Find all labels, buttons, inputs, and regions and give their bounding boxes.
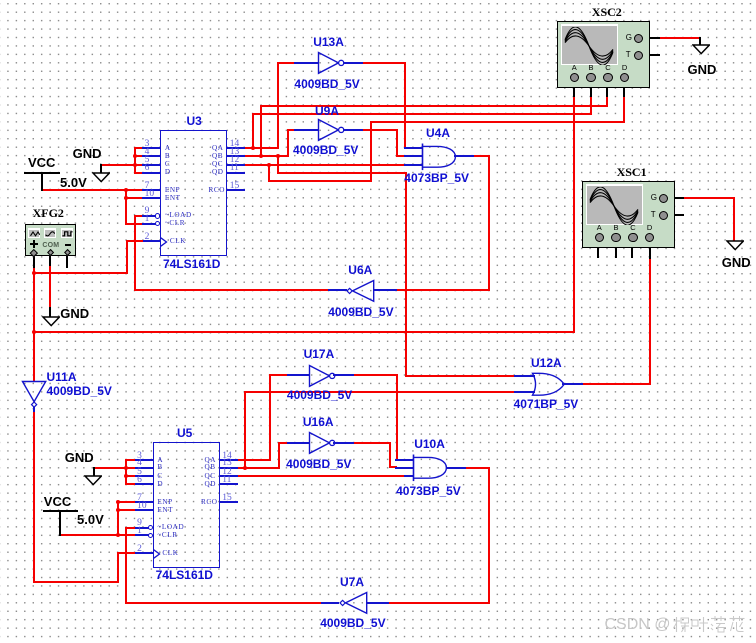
wire U5 QC row to U10A input 3 xyxy=(235,475,406,477)
oscilloscope XSC2 G T terminals xyxy=(634,34,643,43)
or gate U12A xyxy=(514,375,535,377)
wire QA to XSC2 B xyxy=(252,113,254,149)
wire VCC to U5 ENP ENT ~CLR xyxy=(59,534,137,536)
function generator XFG2 body xyxy=(25,224,76,256)
counter U3 right pin stubs xyxy=(226,147,245,149)
counter U3 pin numbers xyxy=(145,140,150,150)
counter U5 active-low bubbles pins 9 1 xyxy=(148,525,153,530)
counter U5 pin names xyxy=(157,457,163,464)
wire XSC1 G stub xyxy=(667,197,684,199)
inverter U7A xyxy=(366,602,389,604)
wire clock line to XSC2 A xyxy=(33,331,575,333)
counter U3 left pin stubs xyxy=(142,147,161,149)
counter U3 active-low bubbles pins 9 1 xyxy=(155,213,160,218)
oscilloscope XSC2 screen xyxy=(561,24,618,65)
wire U3 QB row xyxy=(243,155,289,157)
function generator XFG2 waveform buttons xyxy=(28,228,40,238)
and gate U10A xyxy=(395,459,414,461)
wire U6A output to U3 ~LOAD xyxy=(134,215,144,217)
wire XSC2 A-D terminal stubs xyxy=(573,81,575,97)
counter U5 clock edge triangle xyxy=(153,549,161,559)
wire U5 QB branch to U12A input 2 xyxy=(244,391,246,469)
function generator XFG2 terminal labels xyxy=(30,243,38,245)
wire XSC1 D stub xyxy=(649,242,651,259)
wire XFG2 COM to GND xyxy=(49,266,51,309)
counter U3 74LS161D body xyxy=(160,130,227,256)
oscilloscope XSC2 A B C D terminals xyxy=(572,64,577,72)
oscilloscope XSC2 waveform xyxy=(563,27,615,65)
wire U5 data pins to GND xyxy=(93,467,136,469)
ground symbol near U3 data pins xyxy=(100,164,102,174)
function generator XFG2 terminals xyxy=(30,249,38,257)
watermark xyxy=(605,617,671,633)
wire U10A output to U7A input xyxy=(464,467,490,469)
wire QA up to U13A input xyxy=(277,62,279,149)
inverter U13A xyxy=(294,62,319,64)
wire XFG2 + down to U11A input xyxy=(33,266,35,382)
wire QB branch down to U12A input 1 xyxy=(277,155,279,174)
wire XFG2 terminal stubs xyxy=(33,254,35,268)
wire U4A output to U6A input xyxy=(472,155,490,157)
function generator XFG2 triangle wave icon xyxy=(30,230,40,237)
ground symbol XFG2 COM xyxy=(42,316,60,327)
wire U3 QA row xyxy=(243,147,279,149)
wire U5 QA row to U17A input xyxy=(236,459,271,461)
inverter U16A xyxy=(287,442,310,444)
wire U3 data pins to GND xyxy=(100,164,144,166)
wire U11A output to U5 CLK xyxy=(117,552,137,554)
inverter U11A xyxy=(21,380,47,410)
oscilloscope XSC1 body xyxy=(582,181,675,248)
inverter U17A xyxy=(287,374,310,376)
inverter U6A xyxy=(373,289,397,291)
oscilloscope XSC1 screen xyxy=(586,184,643,225)
wire VCC branch down to U3 ENT and ~CLR xyxy=(125,189,127,225)
and gate U4A xyxy=(404,147,423,149)
counter U5 left pin stubs xyxy=(135,459,154,461)
power VCC U5 xyxy=(43,510,78,512)
ground symbol XSC2 G xyxy=(692,44,710,55)
wire U5 QB row to U16A input xyxy=(236,467,280,469)
power VCC U3 xyxy=(24,172,60,174)
oscilloscope XSC2 body xyxy=(557,21,650,88)
wire U7A output to U5 ~LOAD xyxy=(125,527,137,529)
counter U5 pin numbers xyxy=(137,452,142,462)
counter U3 clock edge triangle xyxy=(160,237,168,247)
wire XSC1 G to GND xyxy=(682,197,735,199)
counter U3 pin names xyxy=(165,145,171,152)
wire XSC1 T stub xyxy=(667,214,684,216)
wire U3 QC row to U4A input 3 xyxy=(243,164,406,166)
counter U5 74LS161D body xyxy=(153,442,220,568)
wire U12A output to XSC1 D xyxy=(581,383,651,385)
oscilloscope XSC1 G T terminals xyxy=(659,194,668,203)
wire XSC2 G to GND xyxy=(658,37,701,39)
function generator XFG2 sine wave icon xyxy=(45,230,55,237)
wire QB to XSC2 C xyxy=(260,105,262,157)
ground symbol near U5 data pins xyxy=(93,467,95,477)
wire U3 left pins A-D common vertical xyxy=(134,147,136,174)
wire QB up to U9A input xyxy=(287,129,289,157)
wire U9A output to U4A input 2 xyxy=(361,129,398,131)
wire VCC to U3 ENP xyxy=(41,189,144,191)
wire XSC2 G stub xyxy=(642,37,660,39)
wire U13A output to U4A input 1 xyxy=(361,62,406,64)
function generator XFG2 square wave icon xyxy=(62,230,73,237)
oscilloscope XSC1 A B C D terminals xyxy=(597,224,602,232)
wire XFG2 + to U3 CLK xyxy=(126,240,145,242)
wire XSC2 T stub xyxy=(642,54,660,56)
oscilloscope XSC1 waveform xyxy=(588,187,640,225)
wire U16A output to U10A input 2 xyxy=(352,442,391,444)
inverter U9A xyxy=(294,129,319,131)
counter U5 right pin stubs xyxy=(219,459,238,461)
ground symbol XSC1 G xyxy=(726,240,744,251)
wire QC branch to XSC2 D xyxy=(268,164,270,182)
wire XSC1 A-C dangling stubs xyxy=(597,242,599,258)
wire U17A output to U10A input 1 xyxy=(352,374,398,376)
